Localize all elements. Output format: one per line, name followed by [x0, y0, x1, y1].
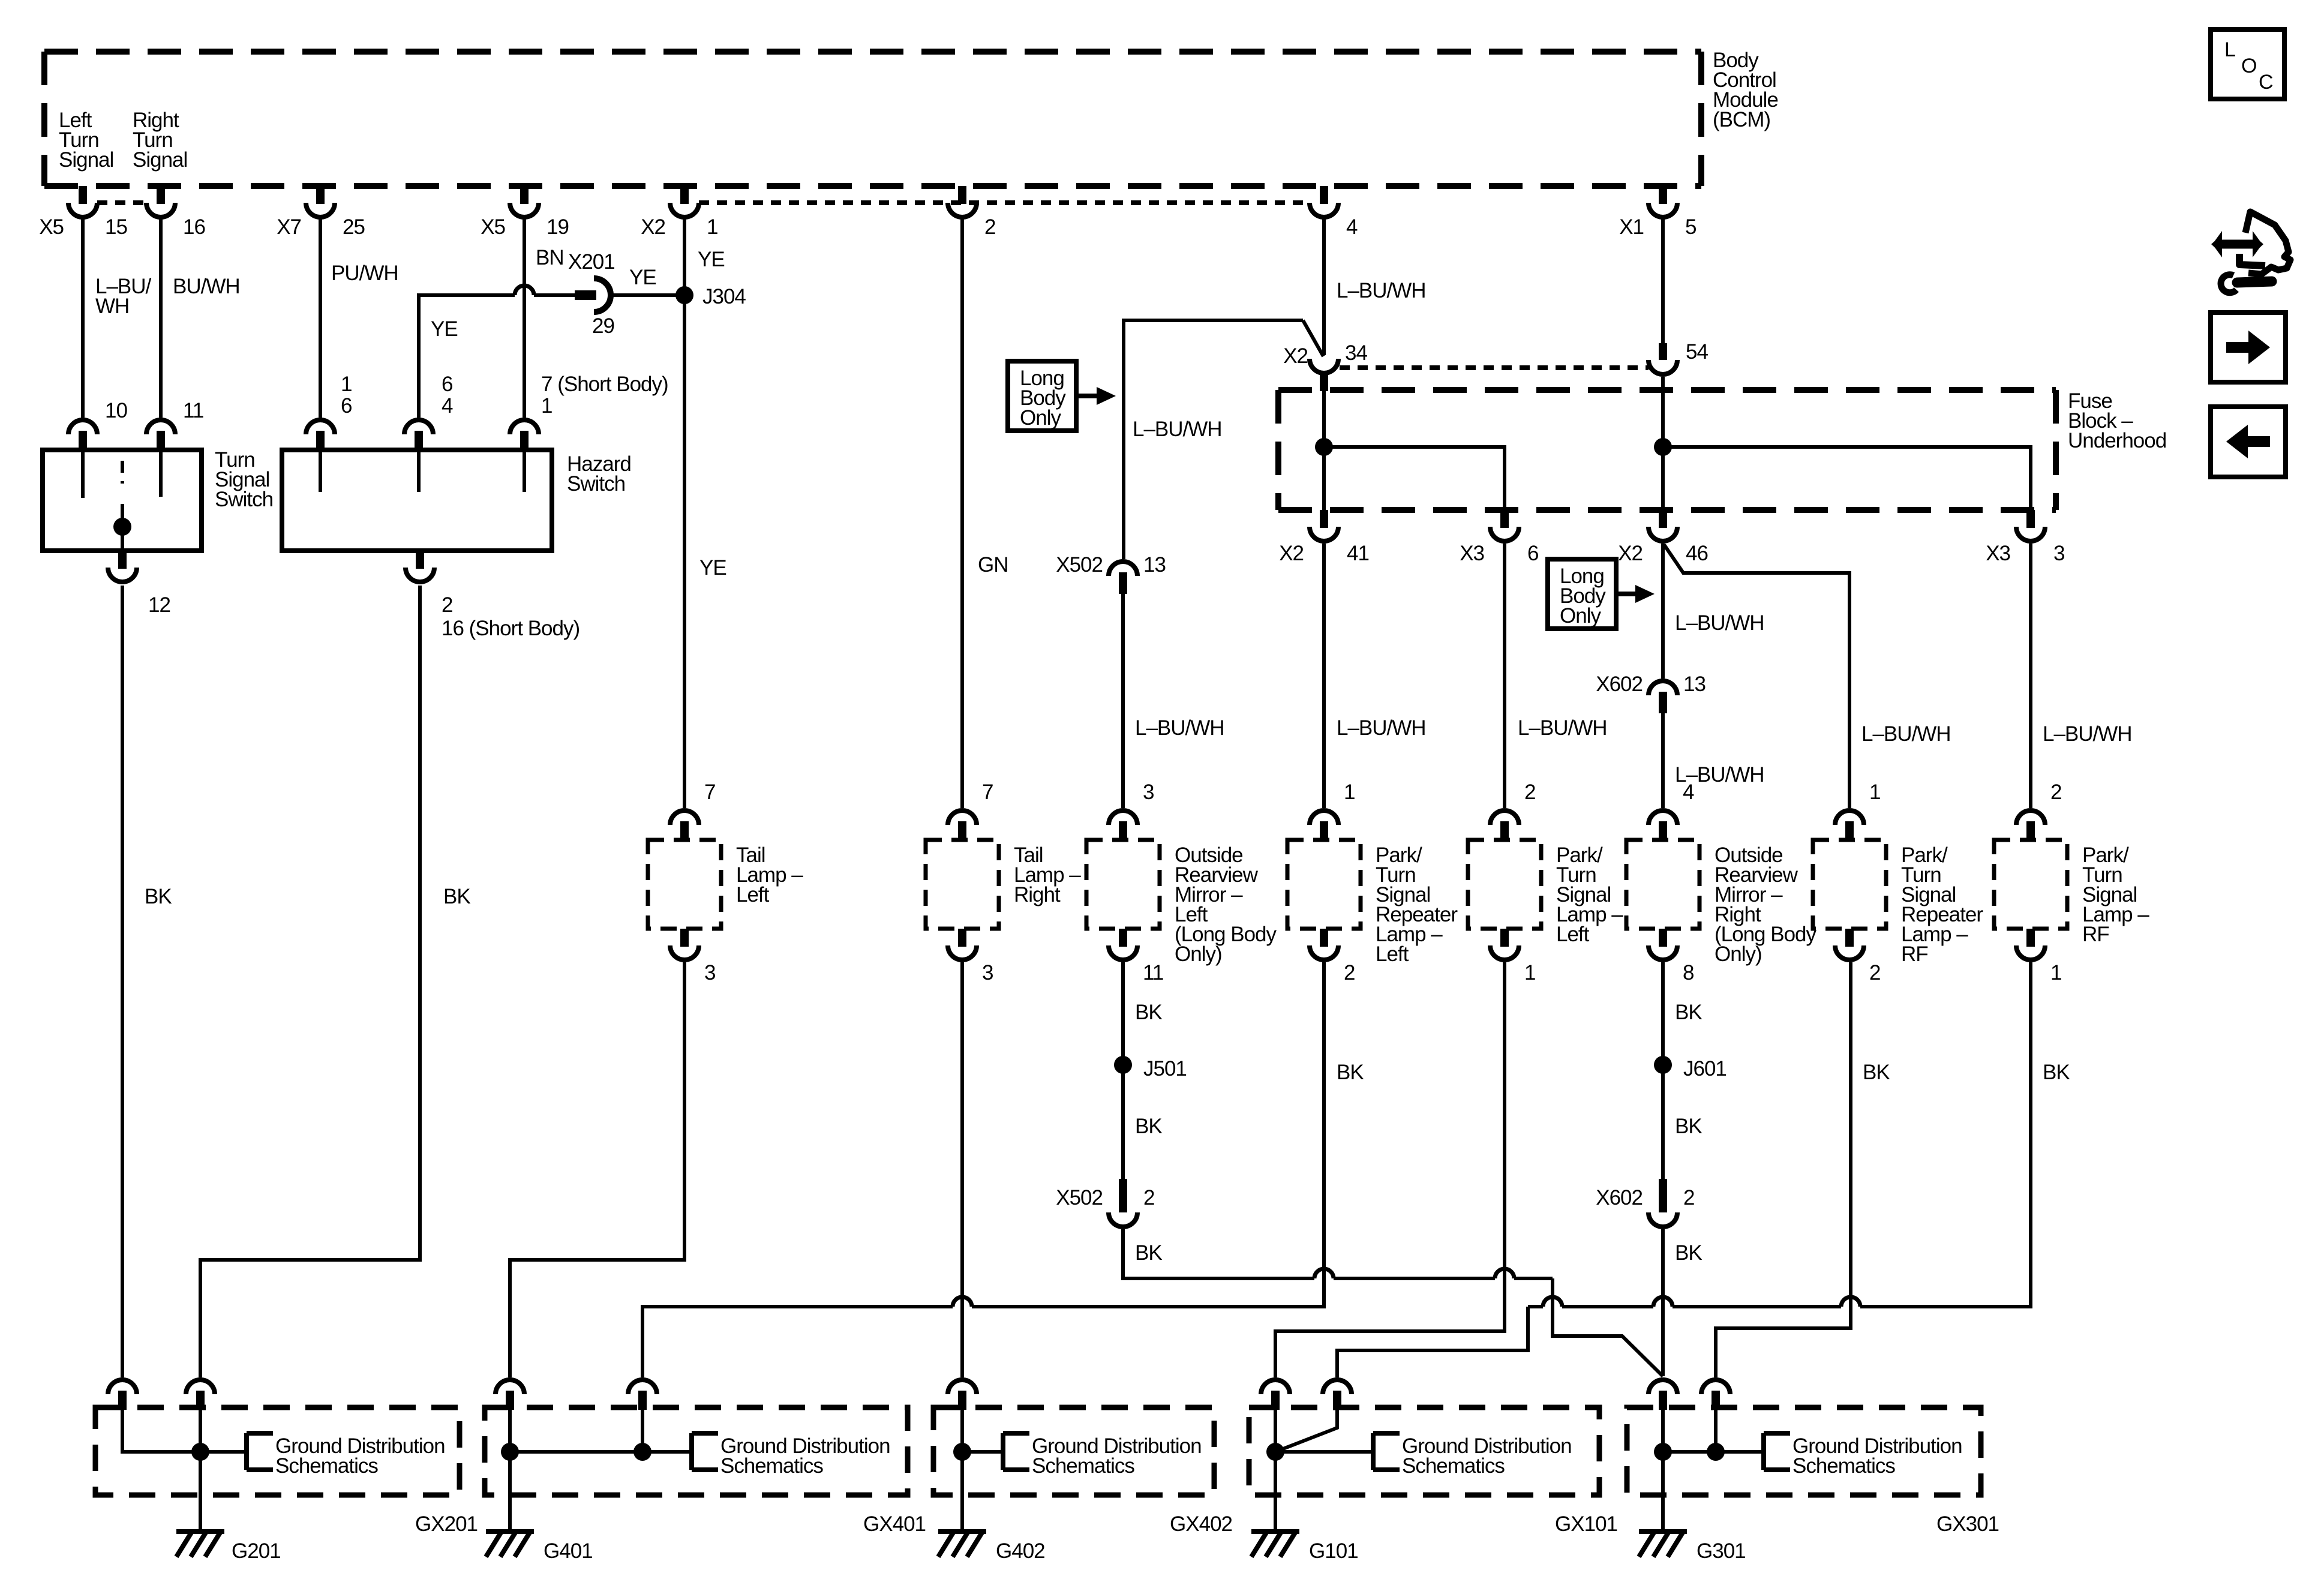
- wire pin X1/5 down to fuse block pin 54: [1661, 218, 1665, 343]
- svg-text:BU/WH: BU/WH: [173, 275, 240, 298]
- BCM dotted link X2/34 to 54: [1340, 365, 1649, 370]
- hop over tail lamp right ground wire: [953, 1297, 972, 1307]
- GX201 arcs and internal wiring: [108, 1380, 247, 1532]
- svg-text:6: 6: [341, 394, 352, 418]
- park/turn signal lamp left bottom pin 1: [1490, 929, 1535, 984]
- svg-text:G402: G402: [996, 1539, 1045, 1563]
- wire BK X502/2 to GX301: [1123, 1229, 1663, 1376]
- svg-text:X602: X602: [1596, 1186, 1643, 1209]
- svg-text:Only): Only): [1175, 942, 1222, 966]
- Fuse Block - Underhood dashed box: [1278, 389, 2166, 510]
- svg-text:Switch: Switch: [567, 472, 625, 496]
- fuse wire 54 to X2/46: [1661, 377, 1665, 511]
- svg-text:X1: X1: [1619, 215, 1644, 239]
- svg-text:J501: J501: [1143, 1057, 1187, 1080]
- junction J304: [675, 285, 746, 308]
- connector X502/2: [1056, 1179, 1154, 1227]
- ground distribution box GX401: [485, 1407, 926, 1536]
- svg-text:1: 1: [341, 373, 352, 396]
- TSS pin 12: [108, 551, 170, 617]
- GX401 arcs and internal wiring: [496, 1380, 692, 1532]
- svg-text:X502: X502: [1056, 553, 1103, 577]
- LOC legend box: [2211, 29, 2284, 99]
- svg-text:L–BU/WH: L–BU/WH: [1675, 611, 1764, 635]
- wire BK hazard pin2 to GX201: [200, 586, 470, 1377]
- park/turn signal repeater lamp RF box: [1813, 840, 1983, 966]
- wire L-BU/WH X2/41 to repeater left pin1: [1324, 544, 1426, 808]
- back arrow box: [2211, 407, 2286, 477]
- svg-text:1: 1: [1344, 781, 1355, 804]
- svg-text:GX201: GX201: [415, 1512, 478, 1536]
- hazard pin 6/4: [404, 373, 453, 492]
- connector X502/13: [1056, 553, 1166, 594]
- wire L-BU/WH X3/3 to park lamp RF pin2: [2031, 544, 2132, 808]
- svg-text:1: 1: [541, 394, 552, 418]
- svg-text:X201: X201: [568, 250, 615, 274]
- wire GN pin2 to tail lamp right pin7: [962, 218, 1008, 808]
- svg-text:PU/WH: PU/WH: [331, 262, 398, 285]
- park/turn signal lamp RF box: [1994, 840, 2149, 946]
- svg-text:7: 7: [982, 781, 993, 804]
- svg-text:4: 4: [1683, 781, 1694, 804]
- svg-text:YE: YE: [698, 248, 725, 271]
- svg-text:Switch: Switch: [215, 488, 273, 511]
- svg-text:12: 12: [148, 593, 170, 617]
- svg-text:BK: BK: [1135, 1001, 1162, 1024]
- BCM pin 2: [948, 186, 995, 239]
- svg-text:Schematics: Schematics: [1032, 1454, 1134, 1478]
- wire tail lamp right pin3 to GX402: [960, 962, 964, 1377]
- wire BK X602/2 to GX301: [1663, 1229, 1702, 1376]
- svg-text:RF: RF: [1901, 942, 1928, 966]
- svg-text:L–BU/WH: L–BU/WH: [1337, 279, 1426, 302]
- tail lamp left bottom pin 3: [670, 929, 715, 984]
- svg-text:Signal: Signal: [59, 148, 113, 172]
- svg-text:4: 4: [1346, 215, 1358, 239]
- TSS pin 11: [146, 399, 203, 497]
- wire tail lamp left pin3 to GX401: [510, 962, 684, 1377]
- wire BK repeater left pin2 to GX401: [642, 962, 1364, 1377]
- svg-text:3: 3: [704, 961, 715, 984]
- svg-text:YE: YE: [629, 266, 656, 289]
- svg-text:BK: BK: [2043, 1061, 2070, 1084]
- svg-text:16: 16: [183, 215, 205, 239]
- svg-text:3: 3: [982, 961, 993, 984]
- svg-text:29: 29: [592, 314, 614, 338]
- svg-text:54: 54: [1686, 340, 1708, 364]
- hazard pin 1/6: [306, 373, 352, 492]
- hazard pin 2/16: [406, 551, 580, 640]
- outside rearview mirror right top pin 4: [1649, 781, 1694, 840]
- svg-text:6: 6: [1527, 542, 1538, 565]
- svg-text:GX301: GX301: [1936, 1512, 1999, 1536]
- outside rearview mirror right box: [1626, 840, 1817, 966]
- svg-text:41: 41: [1347, 542, 1369, 565]
- svg-text:3: 3: [1143, 781, 1154, 804]
- svg-text:11: 11: [183, 399, 203, 422]
- connector X2/34: [1283, 341, 1367, 391]
- fuse junction on 46 branch: [1654, 438, 1672, 456]
- park/turn signal repeater lamp left box: [1287, 840, 1458, 966]
- fuse block pin X2/41: [1279, 510, 1369, 565]
- hops on X502/2 ground wire: [1314, 1269, 1514, 1278]
- park/turn signal lamp left box: [1468, 840, 1623, 946]
- connector X201 pin29: [568, 250, 656, 338]
- ground distribution box GX101: [1249, 1407, 1617, 1536]
- Turn Signal Switch box: [43, 448, 273, 551]
- Long Body Only callout box (left): [1008, 361, 1116, 431]
- BCM pin X2/1: [641, 186, 717, 239]
- svg-text:19: 19: [547, 215, 569, 239]
- svg-text:X2: X2: [1279, 542, 1304, 565]
- wire YE hazard pin6/4 up to X201: [419, 295, 575, 418]
- outside rearview mirror left top pin 3: [1109, 781, 1154, 840]
- wire BK park lamp RF pin1 to GX101: [1337, 962, 2070, 1377]
- svg-text:2: 2: [442, 593, 452, 617]
- wire L-BU/WH X2/46 down to X602/13: [1663, 544, 1764, 679]
- ground distribution box GX201: [95, 1407, 478, 1536]
- ground G101: [1251, 1532, 1358, 1563]
- svg-text:BK: BK: [443, 885, 470, 908]
- wire L-BU/WH X602/13 to mirror right pin4: [1663, 713, 1764, 808]
- svg-text:13: 13: [1683, 673, 1706, 696]
- svg-text:34: 34: [1345, 341, 1367, 365]
- BCM pin X7/25: [277, 186, 365, 239]
- svg-text:BK: BK: [1675, 1241, 1702, 1265]
- BCM internal dotted link pin1-pin4: [699, 200, 1310, 205]
- svg-text:2: 2: [1683, 1186, 1694, 1209]
- tail lamp right bottom pin 3: [948, 929, 993, 984]
- svg-text:X602: X602: [1596, 673, 1643, 696]
- svg-text:GX101: GX101: [1555, 1512, 1617, 1536]
- wire BU/WH pin16 to TSS pin11: [161, 218, 240, 418]
- svg-text:10: 10: [105, 399, 127, 422]
- svg-text:RF: RF: [2082, 923, 2109, 946]
- wire BN pin19 to hazard pin7/1: [524, 218, 564, 418]
- ground G201: [176, 1532, 281, 1563]
- label Left Turn Signal: [59, 109, 113, 172]
- fuse block pin X2/46: [1618, 510, 1708, 565]
- svg-text:BN: BN: [536, 246, 564, 269]
- wire BK TSS pin12 to GX201: [122, 586, 172, 1377]
- BCM pin 16: [146, 186, 205, 239]
- svg-text:Schematics: Schematics: [1792, 1454, 1895, 1478]
- park/turn signal lamp RF top pin 2: [2016, 781, 2061, 840]
- svg-text:7 (Short Body): 7 (Short Body): [541, 373, 668, 396]
- svg-text:15: 15: [105, 215, 127, 239]
- wire YE pin1 down to tail lamp left pin7: [684, 218, 726, 808]
- svg-text:Signal: Signal: [133, 148, 187, 172]
- svg-text:X502: X502: [1056, 1186, 1103, 1209]
- svg-text:7: 7: [704, 781, 715, 804]
- svg-text:Schematics: Schematics: [1402, 1454, 1505, 1478]
- fuse wire X2/34 to X2/41: [1322, 391, 1326, 511]
- svg-text:X5: X5: [39, 215, 64, 239]
- BCM pin X1/5: [1619, 186, 1696, 239]
- label Body Control Module (BCM): [1713, 49, 1778, 131]
- park/turn signal lamp left top pin 2: [1490, 781, 1535, 840]
- TSS wiper contact: [113, 461, 131, 551]
- svg-text:L–BU/WH: L–BU/WH: [1135, 716, 1224, 740]
- outside rearview mirror left box: [1086, 840, 1277, 966]
- forward arrow box: [2211, 313, 2286, 382]
- svg-text:G201: G201: [232, 1539, 281, 1563]
- GX402 arc and internal wiring: [948, 1380, 1003, 1532]
- GX301 arcs and internal wiring: [1649, 1380, 1764, 1532]
- wire branch X2/46 to repeater RF pin1: [1664, 545, 1951, 808]
- svg-text:L: L: [2224, 38, 2235, 61]
- svg-text:1: 1: [707, 215, 717, 239]
- svg-text:BK: BK: [1135, 1115, 1162, 1138]
- svg-text:46: 46: [1686, 542, 1708, 565]
- svg-text:X2: X2: [1618, 542, 1643, 565]
- svg-text:BK: BK: [1675, 1001, 1702, 1024]
- BCM pin X5/19: [481, 186, 569, 239]
- BCM internal dotted link pin15-pin16: [97, 200, 146, 205]
- svg-text:G401: G401: [544, 1539, 593, 1563]
- GX101 arcs and internal wiring: [1261, 1380, 1373, 1532]
- Long Body Only callout box (right): [1548, 559, 1655, 629]
- svg-text:L–BU/WH: L–BU/WH: [2043, 722, 2132, 746]
- tail lamp left box: [648, 840, 803, 929]
- ground distribution box GX402: [933, 1407, 1232, 1536]
- wire crossover hop over BN wire: [515, 286, 534, 295]
- svg-text:L–BU/WH: L–BU/WH: [1133, 418, 1222, 441]
- TSS pin 10: [68, 399, 127, 498]
- svg-text:X5: X5: [481, 215, 505, 239]
- wire BK mirror left pin11 to X502/2: [1123, 962, 1162, 1179]
- svg-text:BK: BK: [1337, 1061, 1364, 1084]
- junction J601: [1654, 1056, 1727, 1080]
- svg-text:BK: BK: [1135, 1241, 1162, 1265]
- svg-text:X2: X2: [641, 215, 665, 239]
- tail lamp right top pin 7: [948, 781, 993, 840]
- junction J501: [1114, 1056, 1187, 1080]
- svg-text:L–BU/WH: L–BU/WH: [1337, 716, 1426, 740]
- svg-text:X2: X2: [1283, 344, 1308, 368]
- svg-text:Left: Left: [1376, 942, 1409, 966]
- svg-text:X3: X3: [1986, 542, 2010, 565]
- svg-text:Underhood: Underhood: [2068, 429, 2166, 452]
- svg-text:O: O: [2241, 55, 2256, 77]
- outside rearview mirror right bottom pin 8: [1649, 929, 1694, 984]
- Body Control Module (BCM) dashed box: [44, 52, 1701, 186]
- svg-text:Only: Only: [1560, 604, 1601, 628]
- svg-text:Right: Right: [1014, 883, 1061, 906]
- svg-text:L–BU/WH: L–BU/WH: [1518, 716, 1607, 740]
- fuse branch wire to X3/6: [1324, 447, 1505, 511]
- fuse block pin X3/3: [1986, 510, 2064, 565]
- svg-text:1: 1: [1869, 781, 1880, 804]
- svg-text:8: 8: [1683, 961, 1694, 984]
- wire L-BU/WH long-body branch to mirror left: [1124, 320, 1323, 559]
- svg-text:Only: Only: [1020, 406, 1061, 430]
- svg-text:4: 4: [442, 394, 453, 418]
- svg-text:G301: G301: [1697, 1539, 1746, 1563]
- outside rearview mirror left bottom pin 11: [1109, 929, 1163, 984]
- svg-text:WH: WH: [95, 295, 129, 318]
- park/turn signal repeater lamp left top pin 1: [1310, 781, 1355, 840]
- park/turn signal repeater lamp RF bottom pin 2: [1835, 929, 1880, 984]
- wire BK park lamp left pin1 to GX101: [1275, 962, 1505, 1377]
- svg-text:3: 3: [2053, 542, 2064, 565]
- wire BK mirror right pin8 to X602/2: [1663, 962, 1702, 1179]
- svg-text:6: 6: [442, 373, 452, 396]
- connector 54: [1649, 340, 1708, 374]
- wire L-BU/WH X502/13 to mirror left pin3: [1123, 594, 1224, 808]
- svg-text:Schematics: Schematics: [275, 1454, 378, 1478]
- svg-text:YE: YE: [699, 556, 726, 580]
- svg-text:2: 2: [1143, 1186, 1154, 1209]
- wire L-BU/WH pin15 to TSS pin10: [83, 218, 152, 418]
- svg-text:BK: BK: [1863, 1061, 1890, 1084]
- svg-text:(BCM): (BCM): [1713, 108, 1770, 131]
- hazard pin 7/1: [510, 373, 668, 492]
- svg-text:Only): Only): [1715, 942, 1762, 966]
- svg-text:L–BU/WH: L–BU/WH: [1861, 722, 1951, 746]
- svg-text:1: 1: [2050, 961, 2061, 984]
- wire PU/WH pin25 to hazard pin1/6: [320, 218, 398, 418]
- fuse branch wire to X3/3: [1663, 447, 2031, 511]
- svg-text:X3: X3: [1460, 542, 1484, 565]
- svg-text:GX401: GX401: [863, 1512, 926, 1536]
- BCM pin X5/15: [39, 186, 127, 239]
- svg-text:11: 11: [1143, 961, 1163, 984]
- vehicle diagnostic icon: [2211, 212, 2290, 293]
- svg-text:2: 2: [1869, 961, 1880, 984]
- wire L-BU/WH pin4 to X2/34: [1324, 218, 1426, 355]
- connector X602/2: [1596, 1179, 1694, 1227]
- svg-text:C: C: [2259, 71, 2273, 94]
- park/turn signal repeater lamp left bottom pin 2: [1310, 929, 1355, 984]
- svg-text:2: 2: [1344, 961, 1355, 984]
- connector X602/13: [1596, 673, 1706, 713]
- svg-text:G101: G101: [1309, 1539, 1358, 1563]
- svg-text:25: 25: [343, 215, 365, 239]
- svg-text:2: 2: [2050, 781, 2061, 804]
- ground G401: [486, 1532, 593, 1563]
- BCM pin 4: [1310, 186, 1358, 239]
- svg-text:Left: Left: [1556, 923, 1590, 946]
- svg-text:BK: BK: [145, 885, 172, 908]
- tail lamp left top pin 7: [670, 781, 715, 840]
- svg-text:13: 13: [1143, 553, 1166, 577]
- wire L-BU/WH X3/6 to park lamp left pin2: [1505, 544, 1607, 808]
- svg-text:BK: BK: [1675, 1115, 1702, 1138]
- svg-text:J304: J304: [702, 285, 746, 308]
- tail lamp right box: [926, 840, 1081, 929]
- svg-text:2: 2: [984, 215, 995, 239]
- fuse junction on 41 branch: [1315, 438, 1333, 456]
- Hazard Switch box: [282, 450, 631, 551]
- ground G301: [1639, 1532, 1746, 1563]
- svg-text:GX402: GX402: [1170, 1512, 1232, 1536]
- svg-text:5: 5: [1685, 215, 1696, 239]
- wire YE X201 to J304: [611, 293, 676, 297]
- label Right Turn Signal: [133, 109, 187, 172]
- svg-text:2: 2: [1524, 781, 1535, 804]
- fuse block pin X3/6: [1460, 510, 1538, 565]
- svg-text:Schematics: Schematics: [720, 1454, 823, 1478]
- svg-text:GN: GN: [978, 553, 1008, 577]
- svg-text:16 (Short Body): 16 (Short Body): [442, 617, 580, 640]
- park/turn signal repeater lamp RF top pin 1: [1835, 781, 1880, 840]
- hops on lamp RF ground wire: [1543, 1297, 1860, 1307]
- ground distribution box GX301: [1627, 1407, 1999, 1536]
- ground G402: [938, 1532, 1045, 1563]
- svg-text:YE: YE: [431, 317, 458, 341]
- park/turn signal lamp RF bottom pin 1: [2016, 929, 2061, 984]
- svg-text:J601: J601: [1683, 1057, 1727, 1080]
- svg-text:1: 1: [1524, 961, 1535, 984]
- wire BK repeater RF pin2 to GX301: [1716, 962, 1890, 1377]
- svg-text:Left: Left: [736, 883, 770, 906]
- svg-text:X7: X7: [277, 215, 301, 239]
